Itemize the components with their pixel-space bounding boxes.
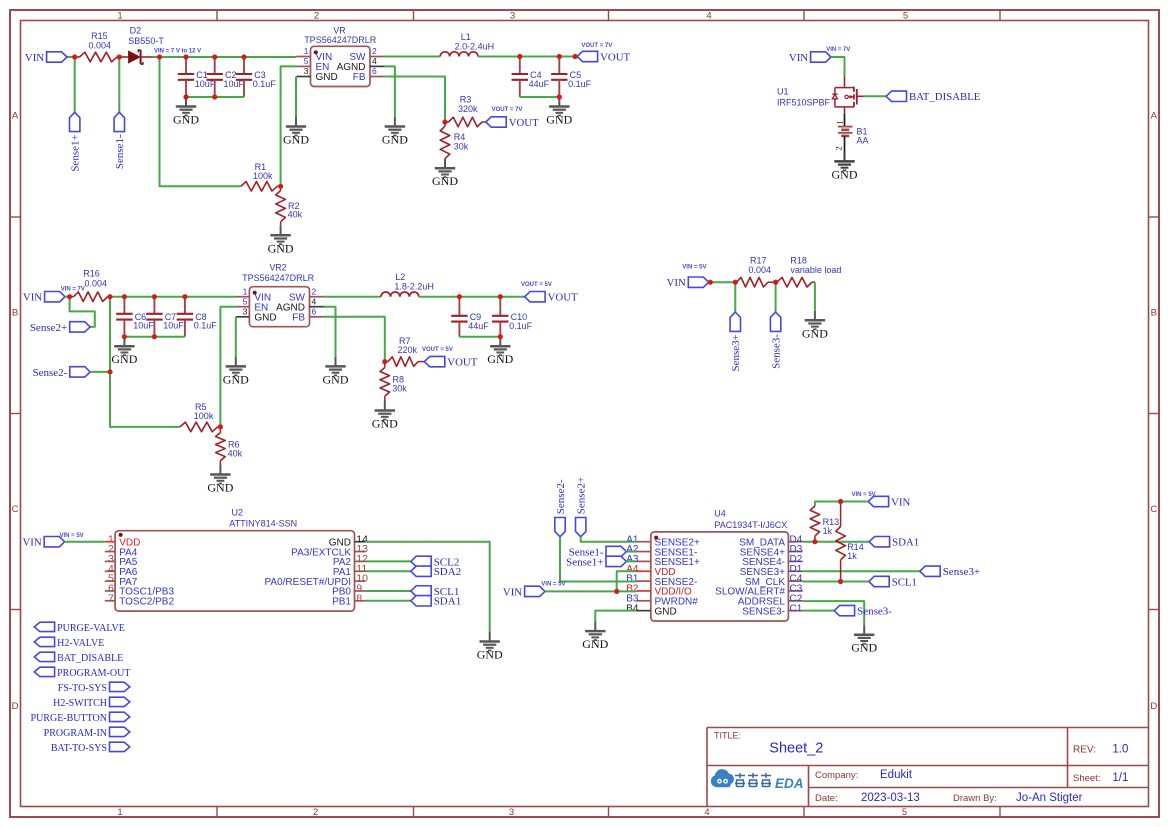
svg-text:BAT-TO-SYS: BAT-TO-SYS xyxy=(51,743,107,754)
svg-text:A: A xyxy=(12,111,19,122)
svg-text:GND: GND xyxy=(372,417,398,431)
svg-text:7: 7 xyxy=(108,592,114,604)
svg-text:VIN: VIN xyxy=(891,496,910,508)
svg-text:L1: L1 xyxy=(461,32,471,42)
svg-text:D: D xyxy=(1150,701,1157,712)
svg-text:1: 1 xyxy=(117,807,122,818)
svg-text:U1: U1 xyxy=(777,87,789,97)
svg-text:H2-VALVE: H2-VALVE xyxy=(57,638,104,649)
svg-text:Edukit: Edukit xyxy=(880,769,913,781)
svg-text:100k: 100k xyxy=(253,171,273,181)
svg-text:PROGRAM-OUT: PROGRAM-OUT xyxy=(57,668,130,679)
svg-text:Sheet_2: Sheet_2 xyxy=(769,741,823,757)
svg-text:TPS564247DRLR: TPS564247DRLR xyxy=(304,35,377,45)
svg-text:0.004: 0.004 xyxy=(89,41,112,51)
svg-text:VR: VR xyxy=(333,26,345,36)
svg-text:R3: R3 xyxy=(460,95,472,105)
svg-text:40k: 40k xyxy=(228,449,243,459)
svg-text:VIN = 5V: VIN = 5V xyxy=(852,492,876,498)
svg-text:GND: GND xyxy=(582,637,608,651)
svg-text:2: 2 xyxy=(313,807,318,818)
svg-text:SB550-T: SB550-T xyxy=(128,36,164,46)
svg-text:C: C xyxy=(12,504,19,515)
svg-text:SCL1: SCL1 xyxy=(892,576,917,588)
svg-text:10uF: 10uF xyxy=(163,321,184,331)
svg-text:6: 6 xyxy=(372,66,377,76)
svg-text:VIN = 5V: VIN = 5V xyxy=(682,264,706,270)
svg-text:VIN = 7 V to 12 V: VIN = 7 V to 12 V xyxy=(154,48,201,54)
svg-text:TOSC2/PB2: TOSC2/PB2 xyxy=(119,597,174,608)
svg-text:VIN: VIN xyxy=(667,277,686,289)
svg-text:3: 3 xyxy=(509,807,514,818)
svg-text:VIN: VIN xyxy=(22,537,41,549)
svg-text:1: 1 xyxy=(117,11,122,22)
svg-text:VIN: VIN xyxy=(23,292,42,304)
svg-text:GND: GND xyxy=(477,648,503,662)
svg-text:Sense2-: Sense2- xyxy=(32,367,67,379)
svg-text:GND: GND xyxy=(382,133,408,147)
svg-text:GND: GND xyxy=(316,72,338,83)
svg-text:GND: GND xyxy=(207,481,233,495)
svg-text:PAC1934T-I/J6CX: PAC1934T-I/J6CX xyxy=(714,520,787,530)
svg-text:VOUT = 5V: VOUT = 5V xyxy=(422,347,453,353)
svg-text:GND: GND xyxy=(254,313,276,324)
svg-text:Sense3-: Sense3- xyxy=(857,606,892,618)
svg-text:D: D xyxy=(12,701,19,712)
svg-text:C: C xyxy=(1150,504,1157,515)
svg-text:VIN = 5V: VIN = 5V xyxy=(60,533,84,539)
svg-text:variable load: variable load xyxy=(790,265,841,275)
svg-text:Sense1+: Sense1+ xyxy=(566,556,603,568)
svg-text:1: 1 xyxy=(304,46,309,56)
svg-text:0.1uF: 0.1uF xyxy=(568,79,592,89)
svg-text:B: B xyxy=(12,308,18,319)
svg-text:3: 3 xyxy=(510,11,515,22)
svg-text:U4: U4 xyxy=(714,509,726,519)
svg-text:GND: GND xyxy=(283,133,309,147)
svg-text:0.1uF: 0.1uF xyxy=(194,321,218,331)
svg-text:Sense2-: Sense2- xyxy=(555,479,567,514)
svg-text:3: 3 xyxy=(304,66,309,76)
svg-text:2: 2 xyxy=(372,46,377,56)
svg-text:Sense3-: Sense3- xyxy=(771,334,783,369)
svg-text:1.8-2.2uH: 1.8-2.2uH xyxy=(394,282,434,292)
svg-text:AA: AA xyxy=(857,136,869,146)
svg-text:1: 1 xyxy=(834,120,844,124)
svg-text:1: 1 xyxy=(243,286,248,296)
svg-text:R16: R16 xyxy=(83,269,100,279)
svg-text:6: 6 xyxy=(312,306,317,316)
svg-text:100k: 100k xyxy=(194,411,214,421)
svg-text:Sense2+: Sense2+ xyxy=(30,322,67,334)
svg-text:L2: L2 xyxy=(395,272,405,282)
svg-text:VOUT = 7V: VOUT = 7V xyxy=(492,107,523,113)
svg-text:VOUT: VOUT xyxy=(447,357,477,369)
svg-text:ATTINY814-SSN: ATTINY814-SSN xyxy=(229,518,297,528)
svg-text:VOUT = 5V: VOUT = 5V xyxy=(521,282,552,288)
svg-text:GND: GND xyxy=(546,113,572,127)
svg-text:0.004: 0.004 xyxy=(85,278,108,288)
svg-text:4: 4 xyxy=(312,296,317,306)
svg-text:BAT_DISABLE: BAT_DISABLE xyxy=(909,91,981,103)
svg-text:2023-03-13: 2023-03-13 xyxy=(861,792,920,804)
svg-text:2: 2 xyxy=(312,286,317,296)
svg-text:1/1: 1/1 xyxy=(1112,772,1128,784)
svg-text:8: 8 xyxy=(356,592,362,604)
svg-text:44uF: 44uF xyxy=(468,321,489,331)
svg-text:0.1uF: 0.1uF xyxy=(509,321,533,331)
svg-text:R15: R15 xyxy=(91,31,108,41)
svg-text:Date:: Date: xyxy=(815,793,838,804)
svg-text:SENSE3-: SENSE3- xyxy=(742,606,785,617)
svg-text:EDA: EDA xyxy=(775,776,804,791)
svg-text:BAT_DISABLE: BAT_DISABLE xyxy=(57,653,123,664)
svg-text:10uF: 10uF xyxy=(133,321,154,331)
svg-text:2.0-2.4uH: 2.0-2.4uH xyxy=(455,41,495,51)
svg-text:B4: B4 xyxy=(626,603,639,614)
svg-text:GND: GND xyxy=(487,352,513,366)
svg-text:REV:: REV: xyxy=(1073,744,1096,755)
svg-text:GND: GND xyxy=(655,606,677,617)
svg-text:PROGRAM-IN: PROGRAM-IN xyxy=(44,728,107,739)
svg-text:VIN = 7V: VIN = 7V xyxy=(61,286,85,292)
svg-text:GND: GND xyxy=(802,326,828,340)
svg-text:GND: GND xyxy=(111,352,137,366)
svg-text:1k: 1k xyxy=(823,526,833,536)
svg-text:VOUT: VOUT xyxy=(509,117,539,129)
svg-text:SDA1: SDA1 xyxy=(434,596,462,608)
svg-text:R4: R4 xyxy=(454,132,466,142)
svg-text:GND: GND xyxy=(268,241,294,255)
svg-text:VOUT: VOUT xyxy=(600,51,630,63)
svg-text:PURGE-VALVE: PURGE-VALVE xyxy=(57,623,125,634)
svg-text:FS-TO-SYS: FS-TO-SYS xyxy=(58,683,107,694)
svg-text:A: A xyxy=(1151,111,1158,122)
svg-text:B: B xyxy=(1151,308,1157,319)
svg-text:GND: GND xyxy=(832,167,858,181)
svg-text:VIN = 5V: VIN = 5V xyxy=(541,582,565,588)
svg-text:U2: U2 xyxy=(232,507,244,517)
svg-text:Sense1+: Sense1+ xyxy=(70,134,82,171)
svg-text:1k: 1k xyxy=(847,551,857,561)
svg-text:Sense1-: Sense1- xyxy=(114,134,126,169)
svg-text:4: 4 xyxy=(706,11,711,22)
svg-text:3: 3 xyxy=(243,306,248,316)
svg-text:Drawn By:: Drawn By: xyxy=(953,793,997,804)
svg-text:30k: 30k xyxy=(454,142,469,152)
svg-text:FB: FB xyxy=(292,313,305,324)
svg-text:5: 5 xyxy=(304,56,309,66)
svg-text:VOUT: VOUT xyxy=(548,292,578,304)
svg-text:C1: C1 xyxy=(790,603,803,614)
svg-text:VIN = 7V: VIN = 7V xyxy=(826,47,850,53)
svg-text:GND: GND xyxy=(432,174,458,188)
svg-text:5: 5 xyxy=(243,296,248,306)
svg-text:Sense3+: Sense3+ xyxy=(730,334,742,371)
svg-text:TITLE:: TITLE: xyxy=(714,731,741,741)
svg-text:5: 5 xyxy=(903,11,908,22)
svg-text:VIN: VIN xyxy=(503,586,522,598)
svg-text:4: 4 xyxy=(704,807,709,818)
svg-text:H2-SWITCH: H2-SWITCH xyxy=(53,698,107,709)
svg-text:1.0: 1.0 xyxy=(1112,743,1128,755)
svg-text:PURGE-BUTTON: PURGE-BUTTON xyxy=(31,713,107,724)
svg-text:VIN: VIN xyxy=(789,52,808,64)
svg-text:SDA2: SDA2 xyxy=(434,566,462,578)
svg-text:44uF: 44uF xyxy=(529,79,550,89)
svg-text:30k: 30k xyxy=(392,384,407,394)
svg-text:VIN: VIN xyxy=(25,52,44,64)
svg-text:0.1uF: 0.1uF xyxy=(253,79,277,89)
svg-text:Jo-An Stigter: Jo-An Stigter xyxy=(1016,792,1083,804)
svg-text:FB: FB xyxy=(353,72,366,83)
svg-text:GND: GND xyxy=(223,372,249,386)
svg-text:5: 5 xyxy=(902,807,907,818)
svg-text:GND: GND xyxy=(323,372,349,386)
svg-text:Sense2+: Sense2+ xyxy=(576,477,588,514)
svg-text:Company:: Company: xyxy=(815,770,858,781)
svg-text:2: 2 xyxy=(833,146,843,150)
svg-text:Sense3+: Sense3+ xyxy=(943,566,980,578)
svg-text:GND: GND xyxy=(851,641,877,655)
svg-text:320k: 320k xyxy=(458,104,478,114)
svg-text:Sheet:: Sheet: xyxy=(1073,773,1100,784)
svg-text:VR2: VR2 xyxy=(269,263,286,273)
svg-text:D2: D2 xyxy=(130,26,142,36)
svg-text:SDA1: SDA1 xyxy=(892,537,919,549)
svg-text:VOUT = 7V: VOUT = 7V xyxy=(581,43,612,49)
svg-text:TPS564247DRLR: TPS564247DRLR xyxy=(242,273,315,283)
svg-text:4: 4 xyxy=(372,56,377,66)
svg-text:40k: 40k xyxy=(288,210,303,220)
svg-text:IRF510SPBF: IRF510SPBF xyxy=(777,97,831,107)
svg-text:0.004: 0.004 xyxy=(749,265,772,275)
svg-text:PB1: PB1 xyxy=(332,597,351,608)
svg-text:GND: GND xyxy=(173,113,199,127)
svg-text:220k: 220k xyxy=(398,345,418,355)
svg-text:2: 2 xyxy=(314,11,319,22)
